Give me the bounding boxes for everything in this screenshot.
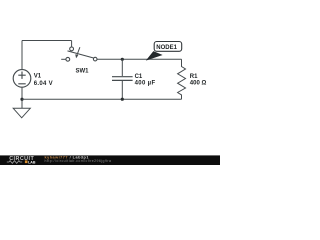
wire V1 bottom to ground junction (21, 87, 23, 108)
svg-text:6.04 V: 6.04 V (34, 81, 53, 87)
svg-text:400 µF: 400 µF (135, 81, 156, 87)
actuator arrow (77, 47, 80, 55)
lever (68, 51, 94, 58)
throw terminal bottom (unconnected stub) (61, 58, 66, 60)
junction dot at V1/ground (20, 98, 23, 101)
resistor R1 (178, 59, 186, 99)
capacitor C1 (112, 59, 133, 99)
switch SW1 (61, 47, 97, 61)
ground (13, 108, 30, 118)
common terminal (93, 57, 97, 61)
footer bar (0, 155, 220, 165)
wire left vertical from top rail to V1 top (21, 41, 23, 70)
throw terminal top (70, 47, 74, 51)
svg-text:400 Ω: 400 Ω (190, 81, 207, 87)
svg-text:SW1: SW1 (76, 68, 90, 74)
wire common to R1 top corner (97, 58, 182, 60)
svg-text:http://circuitlab.com/c9re296j: http://circuitlab.com/c9re296jg9ra (45, 159, 112, 163)
logo LAB (25, 160, 28, 163)
wire switch drop (71, 41, 73, 48)
logo zigzag (7, 161, 22, 164)
svg-text:NODE1: NODE1 (156, 45, 177, 51)
junction dot at C1 bottom (121, 98, 124, 101)
wire bottom rail (22, 98, 182, 100)
svg-text:LAB: LAB (28, 160, 36, 164)
svg-text:C1: C1 (135, 74, 143, 80)
svg-text:R1: R1 (190, 74, 198, 80)
svg-text:V1: V1 (34, 73, 42, 79)
node flag NODE1 (147, 42, 182, 60)
wire top rail left segment (22, 40, 72, 42)
voltage source V1 (13, 70, 31, 88)
junction dot at C1 top (121, 58, 124, 61)
